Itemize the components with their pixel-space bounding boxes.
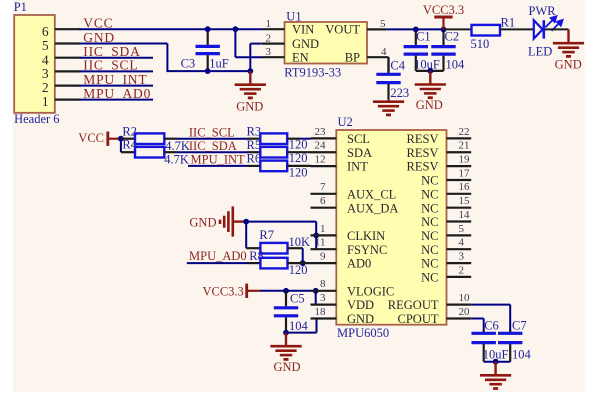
svg-text:R2: R2 bbox=[122, 124, 137, 138]
svg-text:SDA: SDA bbox=[347, 146, 372, 160]
U2 pin 3 NC bbox=[447, 262, 472, 264]
wire R6 to pin 12 bbox=[287, 165, 310, 167]
svg-text:4: 4 bbox=[459, 237, 465, 249]
wire GND to CLKIN FSYNC bbox=[246, 221, 316, 223]
svg-text:15: 15 bbox=[459, 195, 471, 207]
svg-text:4.7K: 4.7K bbox=[164, 152, 189, 166]
ground below C1 C2 bbox=[429, 71, 431, 85]
capacitor C3 1uF bbox=[207, 29, 209, 45]
svg-text:1: 1 bbox=[320, 223, 326, 235]
svg-text:R3: R3 bbox=[247, 124, 262, 138]
svg-text:VIN: VIN bbox=[292, 23, 314, 37]
U2 pin 11 FSYNC bbox=[311, 248, 337, 250]
svg-text:3: 3 bbox=[459, 251, 465, 263]
svg-text:4: 4 bbox=[381, 46, 387, 58]
resistor R4 4.7K bbox=[121, 151, 135, 153]
junction GND node bbox=[247, 68, 253, 74]
U2 pin 16 NC bbox=[447, 193, 472, 195]
junction EN branch on VCC wire bbox=[233, 26, 239, 32]
U2 pin 8 VLOGIC bbox=[311, 290, 337, 292]
junction VDD branch bbox=[313, 288, 319, 294]
svg-text:NC: NC bbox=[421, 271, 438, 285]
svg-text:SCL: SCL bbox=[347, 132, 370, 146]
resistor R1 510 bbox=[472, 25, 501, 36]
U2 pin 23 SCL bbox=[311, 137, 337, 139]
wire REGOUT to C7 bbox=[471, 304, 510, 306]
svg-text:C6: C6 bbox=[484, 318, 499, 332]
U1 pin 5 VOUT bbox=[367, 28, 387, 30]
U2 pin 19 RESV bbox=[447, 165, 472, 167]
svg-text:5: 5 bbox=[459, 223, 465, 235]
U1 pin 4 BP bbox=[367, 56, 389, 58]
svg-text:VDD: VDD bbox=[347, 298, 374, 312]
wire INT row bbox=[188, 165, 248, 167]
svg-text:C5: C5 bbox=[290, 292, 305, 306]
U2 pin 15 NC bbox=[447, 207, 472, 209]
svg-text:23: 23 bbox=[315, 126, 327, 138]
svg-text:3: 3 bbox=[320, 292, 326, 304]
wire R8 to pin 9 bbox=[288, 262, 311, 264]
wire R3 to pin 23 bbox=[287, 138, 300, 140]
svg-text:EN: EN bbox=[292, 51, 309, 65]
svg-text:GND: GND bbox=[292, 37, 319, 51]
svg-text:C2: C2 bbox=[445, 29, 460, 43]
junction C3 top on VCC bbox=[205, 26, 211, 32]
svg-text:C3: C3 bbox=[181, 57, 196, 71]
svg-text:INT: INT bbox=[347, 160, 368, 174]
junction on CLKIN stub bbox=[313, 233, 319, 239]
ground GND below C3 bbox=[249, 71, 251, 85]
svg-text:RESV: RESV bbox=[407, 146, 439, 160]
wire C6 C7 bottom rail bbox=[484, 361, 511, 363]
junction C1 on VOUT bbox=[413, 27, 419, 33]
svg-text:2: 2 bbox=[42, 80, 49, 95]
svg-text:GND: GND bbox=[347, 312, 374, 326]
svg-text:BP: BP bbox=[345, 51, 360, 65]
U2 pin 17 NC bbox=[447, 179, 472, 181]
svg-text:CLKIN: CLKIN bbox=[347, 229, 385, 243]
svg-text:NC: NC bbox=[421, 243, 438, 257]
IC U2 MPU6050 bbox=[336, 130, 446, 325]
wire IIC_SCL from P1.3 bbox=[80, 70, 154, 72]
svg-text:MPU_AD0: MPU_AD0 bbox=[189, 249, 247, 263]
svg-text:MPU_INT: MPU_INT bbox=[191, 152, 246, 166]
resistor R2 4.7K bbox=[121, 138, 135, 140]
svg-text:1: 1 bbox=[42, 94, 49, 109]
capacitor C1 10uF bbox=[415, 29, 417, 45]
svg-text:10: 10 bbox=[459, 292, 471, 304]
junction C3 bottom on GND bbox=[205, 68, 211, 74]
wire MPU_AD0 row bbox=[187, 262, 248, 264]
svg-text:24: 24 bbox=[315, 140, 327, 152]
wire VOUT to R1 bbox=[444, 28, 472, 30]
svg-text:C7: C7 bbox=[512, 318, 527, 332]
wire SCL row bbox=[164, 138, 177, 140]
svg-text:LED: LED bbox=[528, 44, 552, 58]
svg-text:11: 11 bbox=[315, 237, 326, 249]
U2 pin 21 RESV bbox=[447, 151, 472, 153]
svg-text:PWR: PWR bbox=[529, 4, 557, 18]
svg-text:IIC_SDA: IIC_SDA bbox=[189, 139, 237, 153]
svg-text:C1: C1 bbox=[416, 29, 431, 43]
U2 pin 20 CPOUT bbox=[447, 317, 472, 319]
svg-text:19: 19 bbox=[459, 154, 471, 166]
svg-text:VCC: VCC bbox=[78, 131, 104, 145]
U1 pin 3 EN bbox=[263, 56, 285, 58]
svg-text:120: 120 bbox=[289, 166, 308, 180]
U2 pin 1 CLKIN bbox=[311, 234, 337, 236]
wire U1 GND to ground bbox=[250, 43, 261, 45]
svg-text:RESV: RESV bbox=[407, 160, 439, 174]
svg-text:8: 8 bbox=[320, 278, 326, 290]
wire C1 C2 bottom rail bbox=[416, 70, 444, 72]
capacitor C2 104 bbox=[442, 29, 444, 45]
wire MPU_INT from P1.2 bbox=[80, 85, 154, 87]
svg-text:CPOUT: CPOUT bbox=[398, 312, 439, 326]
svg-text:GND: GND bbox=[189, 215, 216, 229]
svg-text:104: 104 bbox=[512, 348, 532, 362]
svg-text:C4: C4 bbox=[390, 59, 405, 73]
svg-text:104: 104 bbox=[289, 319, 309, 333]
svg-text:20: 20 bbox=[459, 306, 471, 318]
svg-text:NC: NC bbox=[421, 201, 438, 215]
svg-text:R7: R7 bbox=[259, 228, 274, 242]
svg-text:NC: NC bbox=[421, 257, 438, 271]
junction C2 on VOUT bbox=[441, 27, 447, 33]
wire VOUT rail bbox=[387, 28, 444, 30]
junction C6 C7 ground bbox=[493, 359, 499, 365]
junction C5 ground bbox=[283, 330, 289, 336]
wire MPU_AD0 from P1.1 bbox=[80, 99, 154, 101]
svg-text:NC: NC bbox=[421, 229, 438, 243]
U2 pin 4 NC bbox=[447, 248, 472, 250]
regulator U1 RT9193-33 bbox=[285, 22, 368, 64]
svg-text:IIC_SCL: IIC_SCL bbox=[189, 125, 235, 139]
svg-text:FSYNC: FSYNC bbox=[347, 243, 387, 257]
U2 pin 24 SDA bbox=[311, 151, 337, 153]
svg-text:VCC3.3: VCC3.3 bbox=[202, 284, 243, 298]
junction R7 AD0 bbox=[300, 260, 306, 266]
svg-text:2: 2 bbox=[266, 33, 272, 45]
svg-text:1uF: 1uF bbox=[209, 57, 229, 71]
svg-text:P1: P1 bbox=[14, 0, 27, 14]
resistor R7 10K bbox=[246, 247, 260, 249]
junction VCC R2 R4 bbox=[118, 136, 124, 142]
svg-text:U1: U1 bbox=[286, 10, 301, 24]
U2 pin 5 NC bbox=[447, 234, 472, 236]
svg-text:VOUT: VOUT bbox=[325, 23, 360, 37]
ground below C5 bbox=[285, 333, 287, 347]
ground below C4 bbox=[387, 100, 389, 102]
svg-text:2: 2 bbox=[459, 264, 465, 276]
svg-text:21: 21 bbox=[459, 140, 470, 152]
svg-text:NC: NC bbox=[421, 174, 438, 188]
svg-text:GND: GND bbox=[273, 360, 300, 374]
wire R7 to AD0 net bbox=[302, 248, 304, 263]
svg-text:AUX_CL: AUX_CL bbox=[347, 187, 396, 201]
wire IIC_SDA from P1.4 bbox=[80, 57, 154, 59]
wire SDA row bbox=[164, 151, 177, 153]
wire VLOGIC rail bbox=[260, 290, 311, 292]
svg-text:5: 5 bbox=[42, 38, 49, 53]
svg-text:NC: NC bbox=[421, 187, 438, 201]
svg-text:7: 7 bbox=[320, 181, 326, 193]
svg-text:U2: U2 bbox=[338, 115, 353, 129]
svg-text:10uF: 10uF bbox=[414, 58, 440, 72]
junction GND CLKIN R7 bbox=[243, 219, 249, 225]
resistor R3 120 bbox=[248, 138, 261, 140]
svg-text:AUX_DA: AUX_DA bbox=[347, 201, 398, 215]
resistor R6 120 bbox=[248, 165, 261, 167]
svg-text:R4: R4 bbox=[122, 138, 137, 152]
U2 pin 6 AUX_DA bbox=[311, 207, 337, 209]
U2 pin 22 RESV bbox=[447, 137, 472, 139]
svg-text:AD0: AD0 bbox=[347, 257, 371, 271]
svg-text:RESV: RESV bbox=[407, 132, 439, 146]
svg-text:5: 5 bbox=[380, 18, 386, 30]
svg-text:VCC3.3: VCC3.3 bbox=[423, 3, 464, 17]
svg-text:R6: R6 bbox=[247, 152, 262, 166]
svg-text:NC: NC bbox=[421, 215, 438, 229]
svg-text:9: 9 bbox=[320, 251, 326, 263]
svg-text:VLOGIC: VLOGIC bbox=[347, 284, 394, 298]
svg-text:RT9193-33: RT9193-33 bbox=[284, 66, 341, 80]
resistor R8 120 bbox=[248, 262, 261, 264]
svg-text:6: 6 bbox=[42, 24, 49, 39]
svg-text:Header 6: Header 6 bbox=[14, 112, 59, 126]
svg-text:120: 120 bbox=[289, 263, 308, 277]
svg-text:223: 223 bbox=[390, 86, 409, 100]
capacitor C7 104 bbox=[509, 330, 511, 332]
U2 pin 7 AUX_CL bbox=[311, 193, 337, 195]
wire to VDD pin bbox=[315, 291, 317, 305]
svg-text:22: 22 bbox=[459, 126, 470, 138]
svg-text:R5: R5 bbox=[247, 138, 262, 152]
svg-text:GND: GND bbox=[236, 99, 263, 113]
wire VCC from P1.6 to U1 VIN bbox=[80, 28, 263, 30]
capacitor C4 223 bbox=[387, 57, 389, 73]
wire GND from P1.5 bbox=[80, 43, 168, 45]
wire R7 branch bbox=[245, 222, 247, 249]
svg-text:REGOUT: REGOUT bbox=[388, 298, 439, 312]
svg-text:12: 12 bbox=[315, 154, 326, 166]
wire R1 to LED bbox=[500, 28, 534, 30]
capacitor C6 10uF bbox=[483, 330, 485, 332]
svg-text:GND: GND bbox=[555, 58, 582, 72]
junction C5 tap bbox=[283, 288, 289, 294]
U2 pin 2 NC bbox=[447, 276, 472, 278]
junction C1 C2 ground bbox=[427, 68, 433, 74]
svg-text:GND: GND bbox=[416, 98, 443, 112]
U1 pin 2 GND bbox=[262, 42, 285, 44]
svg-text:6: 6 bbox=[320, 195, 326, 207]
U2 pin 14 NC bbox=[447, 220, 472, 222]
svg-text:17: 17 bbox=[459, 167, 471, 179]
svg-text:14: 14 bbox=[459, 209, 471, 221]
ground right of LED bbox=[567, 29, 569, 43]
svg-text:1: 1 bbox=[266, 18, 272, 30]
U2 pin 9 AD0 bbox=[311, 262, 337, 264]
svg-text:16: 16 bbox=[459, 181, 471, 193]
wire CPOUT to C6 bbox=[471, 318, 484, 320]
wire LED to ground bbox=[545, 28, 569, 30]
wire R5 to pin 24 bbox=[287, 151, 310, 153]
connector P1 Header 6 bbox=[14, 15, 55, 113]
svg-text:510: 510 bbox=[471, 37, 490, 51]
svg-text:R1: R1 bbox=[501, 16, 516, 30]
svg-text:18: 18 bbox=[315, 306, 327, 318]
svg-text:104: 104 bbox=[446, 58, 466, 72]
U2 pin 12 INT bbox=[311, 165, 337, 167]
capacitor C5 104 bbox=[285, 291, 287, 307]
U1 pin 1 VIN bbox=[263, 28, 285, 30]
U2 pin 3 VDD bbox=[311, 304, 337, 306]
wire VIN to EN bbox=[234, 29, 236, 57]
ground below C6 C7 bbox=[494, 362, 496, 376]
U2 pin 18 GND bbox=[311, 317, 337, 319]
U2 pin 10 REGOUT bbox=[447, 304, 472, 306]
resistor R5 120 bbox=[248, 151, 261, 153]
svg-text:3: 3 bbox=[266, 46, 272, 58]
svg-text:3: 3 bbox=[42, 66, 49, 81]
wire C5 bottom to GND pin 18 bbox=[286, 332, 317, 334]
svg-text:MPU6050: MPU6050 bbox=[337, 326, 389, 340]
